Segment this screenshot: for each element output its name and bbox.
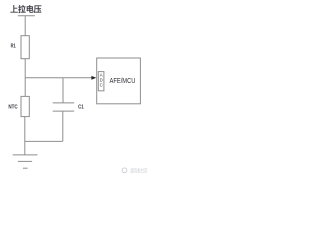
svg-text:NTC: NTC (8, 105, 18, 111)
svg-text:R1: R1 (11, 44, 16, 50)
svg-text:C1: C1 (78, 104, 84, 110)
svg-text:C: C (100, 83, 103, 88)
svg-text:面包板社区: 面包板社区 (131, 166, 148, 174)
svg-text:AFE/MCU: AFE/MCU (110, 76, 136, 85)
svg-text:上拉电压: 上拉电压 (10, 4, 41, 14)
